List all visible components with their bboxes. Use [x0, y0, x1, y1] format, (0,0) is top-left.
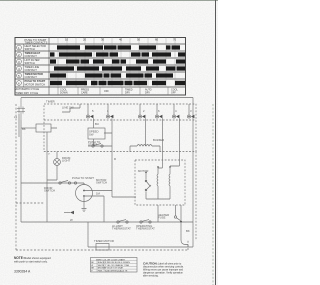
line switch wiring — [62, 104, 80, 112]
svg-text:LIGHT: LIGHT — [62, 159, 71, 163]
cam chart black bars row 2 — [50, 52, 185, 56]
wire motor box to bottom bus — [157, 205, 159, 222]
buzzer coil — [137, 145, 152, 147]
svg-text:CONTACT: CONTACT — [25, 68, 38, 72]
motor centrifugal switch — [145, 180, 147, 182]
rotary switch contact dot upper — [83, 190, 85, 192]
wire cluster lower branch — [85, 196, 104, 222]
door switch contact — [59, 182, 61, 184]
page right edge scan line — [215, 0, 217, 285]
timer switch 5 drop — [173, 104, 175, 115]
right console dashed drop — [195, 152, 197, 241]
heater safety switch — [174, 216, 176, 218]
svg-text:THERMOSTAT: THERMOSTAT — [112, 227, 131, 231]
svg-text:with push to start switch only: with push to start switch only. — [14, 260, 48, 264]
svg-text:CONTACT: CONTACT — [25, 54, 38, 58]
svg-text:MOTOR SWITCH: MOTOR SWITCH — [25, 83, 46, 87]
timer switch 3 drop — [139, 104, 141, 115]
footer cell divider lines — [58, 87, 168, 95]
timer switch 2 terminal — [106, 115, 109, 118]
cabinet dashed outline left — [15, 104, 17, 250]
motor winding 2 — [169, 168, 170, 197]
page top edge scan line — [0, 0, 218, 2]
svg-text:20: 20 — [83, 38, 87, 42]
svg-text:R: R — [114, 157, 116, 161]
timer switch 4 terminal — [155, 115, 158, 118]
svg-text:W: W — [70, 218, 73, 222]
svg-text:MOTOR: MOTOR — [138, 169, 148, 173]
svg-text:OFF: OFF — [171, 92, 176, 95]
chassis ground — [82, 209, 87, 212]
svg-text:30: 30 — [101, 38, 105, 42]
motor dashed box — [135, 160, 185, 205]
timer switch 3 terminal — [138, 115, 141, 118]
timer switch 6 contact triangle — [191, 115, 194, 119]
svg-text:DRY: DRY — [145, 92, 150, 95]
left supply branch to timer box — [21, 127, 36, 129]
timer switch 4 drop — [156, 104, 158, 115]
circled row number 5 — [17, 73, 22, 78]
svg-text:SW: SW — [89, 133, 94, 137]
svg-text:W-BK WHITE-BLACK TR: W-BK WHITE-BLACK TR — [105, 270, 128, 273]
svg-text:FUSE: FUSE — [158, 216, 166, 220]
motor internal wires — [146, 160, 170, 199]
svg-text:OFF: OFF — [104, 90, 109, 93]
table outer border — [15, 38, 186, 96]
svg-text:START: START — [88, 143, 97, 147]
svg-text:Model shown equipped: Model shown equipped — [24, 256, 51, 260]
cam chart black bars row 1 — [57, 45, 180, 49]
wire switch5 down — [170, 118, 179, 166]
timer switch 1 terminal — [86, 115, 89, 118]
svg-text:SWITCH: SWITCH — [96, 181, 107, 185]
motor terminals — [157, 166, 159, 168]
timer switch 5 contact triangle — [176, 115, 179, 119]
circled row number 3 — [17, 59, 22, 64]
wire switch4 down — [161, 118, 163, 160]
svg-text:60: 60 — [155, 38, 159, 42]
wire cluster upper to riser — [85, 190, 112, 192]
cam chart black bars row 4 — [54, 66, 185, 70]
svg-text:V VIOLET GY GRAY: V VIOLET GY GRAY — [105, 267, 124, 270]
operating thermostat — [140, 221, 142, 223]
timer switch 1 contact triangle — [90, 115, 93, 119]
cam chart black bars row 6 — [50, 81, 185, 86]
heater terminal dot — [180, 221, 182, 223]
wire center down to motor box — [112, 146, 136, 197]
svg-text:DOWN: DOWN — [60, 92, 68, 95]
push-to-start rotary switch body — [76, 185, 93, 202]
wire switch6 down right bus — [192, 98, 194, 248]
wire buzzer to right — [130, 146, 160, 152]
svg-text:40: 40 — [119, 38, 123, 42]
buzzer wire — [130, 140, 160, 146]
push-to-start wire horizontal — [88, 145, 112, 147]
svg-text:TIMED DRY CYCLE: TIMED DRY CYCLE — [16, 92, 39, 95]
svg-text:NOTE:: NOTE: — [14, 256, 24, 260]
rotary switch stem — [83, 183, 85, 185]
console dashed stub — [16, 202, 44, 204]
wire from cluster ground area down — [87, 222, 89, 247]
timer switch 6 drop — [188, 104, 190, 115]
table row separator lines — [15, 44, 186, 87]
motor winding 1 — [157, 168, 158, 197]
timer motor on return wire — [96, 244, 109, 251]
drum light — [54, 159, 61, 166]
timer switch 5 terminal — [172, 115, 175, 118]
svg-text:BK: BK — [22, 127, 26, 131]
wire switch1 down — [92, 118, 94, 128]
svg-text:TIMER: TIMER — [46, 100, 55, 104]
table column line: circle column — [23, 44, 25, 87]
svg-text:SWITCH: SWITCH — [25, 47, 35, 51]
cam chart black bars row 3 — [50, 59, 185, 63]
connector arrow — [70, 211, 74, 214]
svg-text:TIMER MOTOR: TIMER MOTOR — [94, 239, 114, 243]
paper speckle — [0, 0, 218, 285]
svg-text:DRY: DRY — [125, 92, 130, 95]
svg-text:50: 50 — [137, 38, 141, 42]
small relay box in timer — [36, 124, 51, 132]
bottom bus wire — [21, 221, 193, 223]
svg-text:70: 70 — [173, 38, 177, 42]
timer switch 3 contact triangle — [142, 115, 145, 119]
schematic tiny labels — [14, 100, 192, 244]
table column line: label/chart divider — [48, 38, 50, 96]
wire from relay box — [47, 128, 57, 196]
svg-text:PINK: PINK — [98, 271, 103, 273]
heater lead down — [181, 222, 188, 247]
svg-text:Y YEL OR ORANGE T TAN: Y YEL OR ORANGE T TAN — [105, 264, 130, 267]
svg-text:after servicing.: after servicing. — [143, 275, 159, 278]
svg-text:SWITCH: SWITCH — [44, 189, 55, 193]
wire switch2 down — [111, 118, 113, 146]
heater lead up to motor box — [176, 205, 182, 220]
power cord plug terminal — [17, 98, 25, 121]
timer switch 1 drop — [87, 104, 89, 115]
svg-text:CONTACT: CONTACT — [25, 75, 38, 79]
svg-text:PUSH TO START: PUSH TO START — [72, 176, 94, 180]
svg-text:WIRE COLOR CODE CHART: WIRE COLOR CODE CHART — [96, 258, 126, 261]
svg-text:R RED BU BLUE G GREEN: R RED BU BLUE G GREEN — [105, 262, 131, 264]
drum light lead from timer — [56, 152, 58, 159]
timer switch 4 contact triangle — [159, 115, 162, 119]
circled row number 2 — [17, 52, 22, 57]
drum light lower lead — [47, 165, 57, 180]
svg-text:AUTOMATIC CYCLE: AUTOMATIC CYCLE — [16, 88, 40, 91]
wire switch3 down — [144, 118, 146, 140]
circled row number 6 — [17, 81, 22, 86]
cabinet dashed outline bottom — [16, 240, 188, 250]
timer switch 2 drop — [107, 104, 109, 115]
rotary switch contact dot lower — [83, 195, 85, 197]
cluster branch down — [83, 197, 85, 208]
svg-text:BUZZER: BUZZER — [153, 138, 164, 142]
timer switch 6 terminal — [187, 115, 190, 118]
cabinet dashed outline right — [212, 104, 214, 285]
speed switch box — [88, 128, 105, 139]
circled row number 1 — [17, 45, 22, 50]
inner timer dashed line — [44, 119, 196, 121]
circled row number 4 — [17, 66, 22, 71]
svg-text:SWITCH: SWITCH — [25, 61, 35, 65]
start switch contacts on wire — [92, 145, 94, 147]
svg-text:TIMER CONTACTS: TIMER CONTACTS — [25, 41, 48, 45]
svg-text:BU: BU — [95, 122, 99, 126]
svg-text:L1: L1 — [14, 115, 18, 119]
svg-text:BK: BK — [186, 229, 190, 233]
left bus doubled line — [18, 114, 20, 137]
chart vertical gridlines — [58, 38, 175, 88]
svg-text:W: W — [91, 265, 93, 267]
timer dashed box — [44, 104, 196, 152]
svg-text:CARE: CARE — [81, 92, 88, 95]
door switch wire — [21, 183, 84, 185]
white notches in cam bars — [80, 45, 176, 86]
speed switch leads — [93, 133, 112, 146]
wire code table — [91, 258, 138, 273]
svg-text:3390284 A: 3390284 A — [14, 270, 31, 274]
svg-text:Y: Y — [48, 152, 50, 156]
lower return wire — [88, 246, 193, 248]
hi-limit thermostat — [117, 221, 119, 223]
svg-text:THERMOSTAT: THERMOSTAT — [136, 227, 155, 231]
cam chart black bars row 5 — [50, 73, 173, 77]
timer switch 2 contact triangle — [110, 115, 113, 119]
left lower wire to bus — [46, 196, 48, 222]
svg-text:1M: 1M — [96, 192, 101, 196]
left supply bus down wire — [20, 120, 22, 222]
svg-text:PUSH TO START: PUSH TO START — [25, 79, 46, 83]
svg-text:10: 10 — [65, 38, 69, 42]
svg-text:LINE SW.: LINE SW. — [62, 106, 74, 110]
top supply bus wire — [21, 97, 193, 99]
